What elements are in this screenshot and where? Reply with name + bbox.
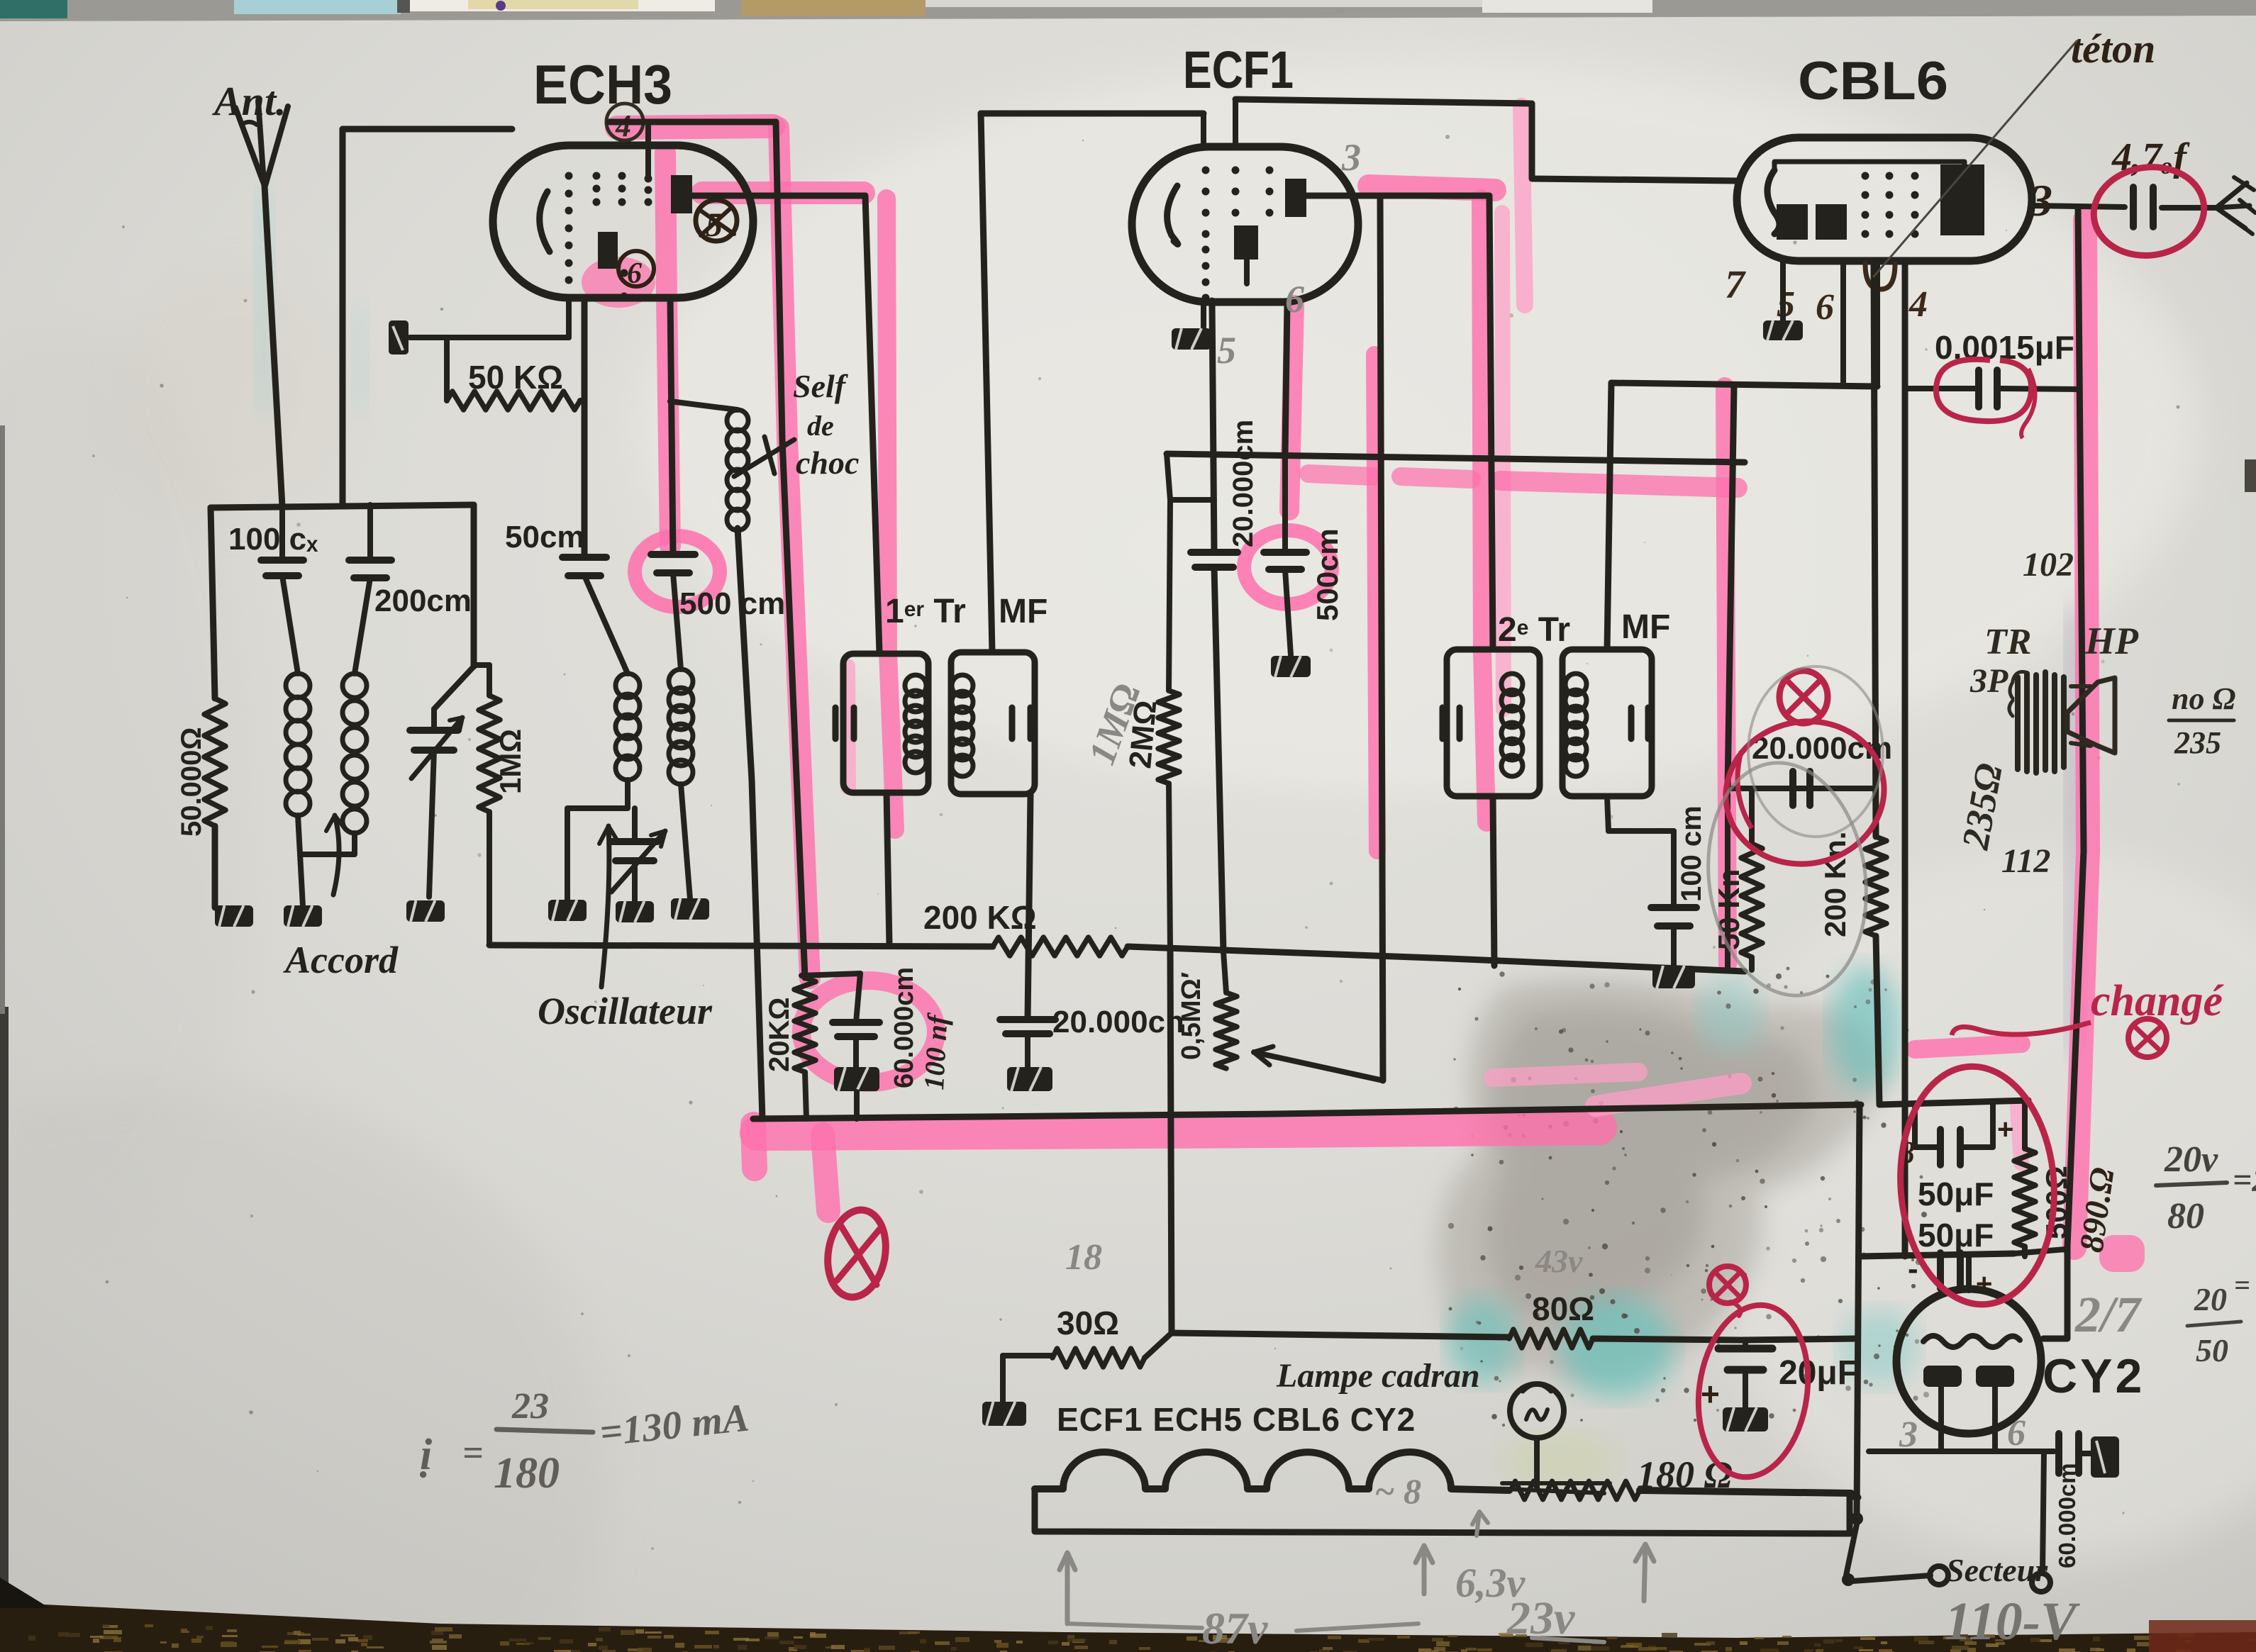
ECF1 ground stub xyxy=(1201,301,1206,328)
svg-text:Accord: Accord xyxy=(283,939,399,981)
svg-text:ECH3: ECH3 xyxy=(533,53,672,116)
wire A long vertical xyxy=(776,122,805,978)
svg-text:200 KΩ: 200 KΩ xyxy=(923,899,1037,936)
svg-text:changé: changé xyxy=(2091,977,2224,1025)
ECH3 left loop xyxy=(343,126,512,133)
red pointer curve xyxy=(1952,1022,2091,1035)
ECH3 plate pin6 xyxy=(598,232,618,269)
svg-text:112: 112 xyxy=(2001,842,2050,880)
svg-text:50cm: 50cm xyxy=(505,520,585,554)
highlighter trace B+ bus xyxy=(757,1127,1599,1133)
svg-text:100 cₓ: 100 cₓ xyxy=(228,522,318,557)
capacitor 500cm 2 xyxy=(1264,549,1306,556)
aerial E symbol xyxy=(2216,183,2250,228)
circled pin 4 xyxy=(606,104,643,140)
screen bus y640 xyxy=(1167,454,1745,462)
switch column xyxy=(1857,1105,1860,1517)
svg-text:=: = xyxy=(2234,1269,2250,1301)
ECF1 top bus right xyxy=(1235,99,1737,181)
svg-text:Oscillateur: Oscillateur xyxy=(538,990,713,1032)
svg-text:87v: 87v xyxy=(1202,1603,1268,1652)
wire to 100cm xyxy=(1608,828,1674,834)
red X circle bus xyxy=(821,1205,892,1302)
svg-text:18: 18 xyxy=(1065,1237,1102,1278)
heater bus rect xyxy=(1035,1489,1850,1534)
capacitor 50uF lower xyxy=(1937,1253,1944,1288)
coil accord 1 xyxy=(282,576,298,674)
svg-text:de: de xyxy=(807,410,834,442)
wire antenna down xyxy=(265,186,282,506)
wire input top horizontal xyxy=(211,505,474,508)
speaker horn HP xyxy=(2067,678,2115,753)
wire pin6 down to 500cm xyxy=(670,298,673,554)
coil accord 2 xyxy=(343,674,367,698)
svg-text:100 nf: 100 nf xyxy=(918,1012,954,1090)
thin pen line xyxy=(1874,41,2077,277)
resistor 180 ohm chain xyxy=(1511,1481,1640,1500)
svg-text:MF: MF xyxy=(1621,608,1670,646)
secteur line xyxy=(1869,1449,2054,1454)
svg-text:500cm: 500cm xyxy=(1311,528,1344,621)
svg-text:80: 80 xyxy=(2167,1196,2204,1237)
svg-text:téton: téton xyxy=(2071,26,2155,72)
bottom rail xyxy=(1860,1254,2014,1256)
svg-text:Lampe cadran: Lampe cadran xyxy=(1276,1357,1480,1395)
pin U wire (200K column) xyxy=(1874,261,1876,837)
svg-text:no Ω: no Ω xyxy=(2172,681,2235,716)
highlighter trace detector wire xyxy=(1725,386,1728,964)
svg-text:=: = xyxy=(462,1433,484,1473)
svg-text:20: 20 xyxy=(2194,1281,2227,1317)
highlighter trace ECH3 grid/plate wires xyxy=(617,126,773,128)
box bottoms xyxy=(1493,796,1494,966)
svg-text:7: 7 xyxy=(1725,263,1746,307)
svg-text:0,5MΩ′: 0,5MΩ′ xyxy=(1177,972,1206,1060)
highlighter trace ECF1 plate wires xyxy=(1369,186,1495,190)
svg-text:43v: 43v xyxy=(1535,1243,1583,1279)
svg-text:23: 23 xyxy=(511,1386,549,1427)
cathode line down xyxy=(1170,950,1172,1332)
ECH3 cathode to ground xyxy=(566,298,572,337)
ECF1 plate lower xyxy=(1234,225,1258,259)
ECF1 plate pin3 xyxy=(1285,179,1306,217)
svg-text:6: 6 xyxy=(1285,278,1304,320)
bus to 80 ohm xyxy=(1172,1333,1509,1337)
svg-text:110-V: 110-V xyxy=(1945,1592,2080,1651)
svg-text:4: 4 xyxy=(1908,284,1928,325)
svg-text:2/7: 2/7 xyxy=(2074,1286,2143,1343)
svg-text:20μF: 20μF xyxy=(1779,1354,1858,1392)
2eTr top feed xyxy=(1607,383,1611,649)
svg-text:50μF: 50μF xyxy=(1918,1176,1994,1212)
resistor 1M ohm xyxy=(474,662,489,668)
wire pin3 right xyxy=(1305,193,1489,199)
CBL6 inner top wire xyxy=(1774,162,1965,170)
heater bumps xyxy=(1035,1452,1509,1490)
red X + circle 20uF xyxy=(1709,1266,1746,1303)
ECH3 cathode arc xyxy=(540,191,550,252)
CY2 pins to line xyxy=(1938,1387,1944,1451)
wire pin5 ECH3 right xyxy=(691,193,865,199)
self de choc coil xyxy=(670,401,738,410)
transformer TR sketch xyxy=(2018,672,2064,773)
IF transformer MF box xyxy=(951,652,1035,794)
resistor 500 ohm xyxy=(2022,1100,2028,1149)
CY2 tube xyxy=(1896,1289,2041,1434)
svg-text:HP: HP xyxy=(2084,620,2139,662)
svg-text:180: 180 xyxy=(494,1449,560,1497)
svg-text:CBL6: CBL6 xyxy=(1798,51,1948,111)
svg-text:+: + xyxy=(1997,1114,2013,1145)
svg-text:102: 102 xyxy=(2023,546,2074,584)
wire pin4 top bus xyxy=(609,119,776,125)
svg-text:20.000cm: 20.000cm xyxy=(1228,420,1259,547)
HP wire C xyxy=(2067,208,2084,1246)
link to 2M xyxy=(1170,497,1214,503)
coil oscillator A xyxy=(616,674,640,698)
svg-text:80Ω: 80Ω xyxy=(1532,1290,1594,1327)
svg-text:TR: TR xyxy=(1984,622,2031,662)
svg-text:6: 6 xyxy=(2007,1413,2026,1453)
circled pin 6 xyxy=(618,251,654,286)
svg-text:6: 6 xyxy=(1816,287,1834,328)
svg-text:Self: Self xyxy=(793,368,849,404)
capacitor 60.000cm / 100nf xyxy=(856,973,860,1022)
pin 4 wire (cathode column) xyxy=(1902,261,1908,1256)
svg-text:20.000cn: 20.000cn xyxy=(1052,1005,1184,1039)
strikethrough + 180 ohm xyxy=(1502,1483,1610,1493)
svg-text:1MΩ: 1MΩ xyxy=(494,729,527,794)
IF transformer 2 box right xyxy=(1562,649,1652,796)
lamp cadran xyxy=(1510,1384,1564,1438)
ground pad xyxy=(284,905,322,927)
ECF1 top pins xyxy=(1201,113,1206,147)
svg-text:4: 4 xyxy=(615,108,631,143)
IF transformer 1 box xyxy=(843,654,928,793)
variable capacitor oscillator xyxy=(632,808,638,842)
svg-text:235: 235 xyxy=(2174,725,2221,760)
svg-text:50: 50 xyxy=(2196,1332,2228,1368)
ground pad xyxy=(548,900,587,921)
svg-text:50μF: 50μF xyxy=(1918,1217,1994,1254)
CBL6 cathode squares xyxy=(1777,204,1808,240)
pink/black 2445 vertical xyxy=(1728,386,1734,788)
svg-text:30Ω: 30Ω xyxy=(1057,1305,1119,1341)
ground pad xyxy=(215,905,253,927)
pencil ellipse resistors xyxy=(1694,752,1881,1005)
MF bottom to 20.000cn xyxy=(1028,795,1030,1020)
svg-text:CY2: CY2 xyxy=(2043,1349,2145,1403)
arrow oscillateur xyxy=(601,826,609,987)
svg-text:1er Tr: 1er Tr xyxy=(885,593,966,630)
variable capacitor accord xyxy=(471,505,477,666)
svg-text:5: 5 xyxy=(1217,329,1236,372)
capacitor 60.000cm secteur xyxy=(2055,1434,2062,1473)
MF box top feed xyxy=(981,113,992,652)
highlighter trace HP wire xyxy=(2074,220,2088,1248)
wire pin6 column xyxy=(582,298,588,557)
resistor 50.000 ohm xyxy=(211,508,215,698)
svg-text:~ 8: ~ 8 xyxy=(1374,1471,1421,1511)
low B+ bus xyxy=(753,1105,1861,1119)
highlighter trace ECH3 pin5 to 1er Tr xyxy=(702,182,864,204)
red ellipse electrolytics xyxy=(1893,1061,2062,1310)
red circle 4,7 cap xyxy=(2088,160,2210,263)
ground pad xyxy=(616,901,654,922)
svg-text:3: 3 xyxy=(2029,175,2052,225)
capacitor 8uF xyxy=(1915,1103,1938,1147)
svg-text:200 Kn.: 200 Kn. xyxy=(1818,832,1852,937)
svg-text:20v: 20v xyxy=(2164,1139,2218,1180)
svg-text:2e Tr: 2e Tr xyxy=(1498,611,1570,649)
ECH3 anode plate pin5 xyxy=(671,175,692,213)
svg-text:6: 6 xyxy=(627,257,642,290)
ground pad xyxy=(406,900,445,922)
capacitor 20uF xyxy=(1743,1340,1748,1344)
svg-text:60.000cm: 60.000cm xyxy=(2054,1463,2080,1568)
svg-text:200cm: 200cm xyxy=(374,584,472,618)
IF transformer 1 bottom tap xyxy=(887,793,889,945)
capacitor 100cm xyxy=(1651,904,1696,911)
svg-text:3P: 3P xyxy=(1969,662,2008,700)
pencil 87v bracket xyxy=(1060,1553,1075,1624)
svg-text:ECF1: ECF1 xyxy=(1183,40,1294,99)
ground pad xyxy=(671,898,709,920)
wire to 0.5M pot arrow xyxy=(1380,196,1383,1081)
svg-text:Ant.: Ant. xyxy=(212,78,287,124)
svg-text:60.000cm: 60.000cm xyxy=(889,967,919,1088)
svg-text:500 cm: 500 cm xyxy=(679,586,785,621)
resistor 2M ohm xyxy=(1169,500,1170,691)
svg-text:+: + xyxy=(1701,1375,1720,1412)
svg-text:ị: ị xyxy=(419,1431,432,1479)
capacitor 500cm circled xyxy=(651,551,695,558)
wire pin6 to 500cm xyxy=(1285,302,1287,454)
CBL6 plate rect xyxy=(1940,164,1984,235)
ECF1 center pin / 20.000cm cap column xyxy=(1244,259,1250,284)
svg-text:=2: =2 xyxy=(2233,1161,2256,1199)
svg-text:ECF1 ECH5 CBL6 CY2: ECF1 ECH5 CBL6 CY2 xyxy=(1057,1401,1416,1438)
svg-text:20KΩ: 20KΩ xyxy=(764,998,795,1072)
ECF1 left loop top xyxy=(981,111,1204,117)
coil oscillator B xyxy=(669,669,693,693)
red X circle detector cap xyxy=(1779,671,1828,723)
svg-text:3: 3 xyxy=(1341,136,1361,179)
svg-text:choc: choc xyxy=(796,445,859,481)
circled pin 5 xyxy=(696,200,737,241)
capacitor 20.000cn xyxy=(1000,1016,1055,1023)
svg-text:100 cm: 100 cm xyxy=(1676,805,1707,902)
svg-text:MF: MF xyxy=(999,593,1048,630)
switch xyxy=(1850,1512,1863,1525)
IF transformer 2 box left xyxy=(1447,649,1540,796)
plate pin3 wire + 4,7 cap xyxy=(2032,206,2125,207)
potentiometer 0,5M xyxy=(1223,951,1226,993)
pins 5,6 to screen line xyxy=(1840,261,1846,383)
arrow accord xyxy=(333,815,339,895)
node rail top xyxy=(1879,1100,2028,1105)
svg-text:50 KΩ: 50 KΩ xyxy=(468,359,563,396)
pin7 ground xyxy=(1780,261,1786,320)
svg-text:50.000Ω: 50.000Ω xyxy=(176,727,207,837)
red circle 0,0015 xyxy=(1936,359,2031,421)
wire AVC bus xyxy=(489,945,993,947)
